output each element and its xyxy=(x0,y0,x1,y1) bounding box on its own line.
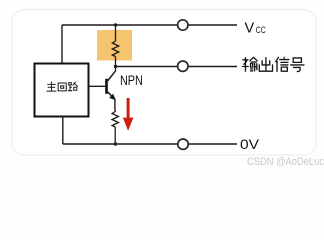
panel background card xyxy=(12,10,316,156)
wire: output signal line xyxy=(116,66,238,68)
resistor R2 (emitter resistor) xyxy=(112,110,118,144)
terminal Vcc xyxy=(178,20,188,30)
node: 0V rail junction xyxy=(114,142,117,145)
wire: 0V bottom rail xyxy=(63,143,237,145)
transistor Q1 NPN xyxy=(89,71,116,110)
emitter stroke xyxy=(108,92,115,100)
label Vcc xyxy=(245,21,266,37)
出 xyxy=(259,58,272,72)
node: junction of pull-up resistor on Vcc rail xyxy=(114,23,117,26)
label 主回路 (drawn glyph strokes) xyxy=(47,82,77,91)
svg-text:CC: CC xyxy=(256,25,266,36)
load resistor highlight (orange box) xyxy=(97,30,132,61)
base bar xyxy=(105,79,108,94)
信 xyxy=(276,57,289,71)
svg-text:NPN: NPN xyxy=(120,73,143,88)
current arrow (red) xyxy=(123,98,133,131)
resistor R1 (pull-up, inside orange box) xyxy=(112,25,118,72)
emitter arrowhead xyxy=(109,94,116,100)
terminal output xyxy=(178,61,188,71)
node: output junction xyxy=(114,65,117,68)
emitter vertical wire xyxy=(114,99,116,110)
wire: left vertical from top rail to main circuit box xyxy=(61,25,63,64)
label 输出信号 (drawn glyph strokes) xyxy=(243,57,304,71)
collector stroke xyxy=(108,71,116,81)
terminal 0V xyxy=(178,139,188,149)
输 xyxy=(243,57,258,71)
svg-text:CSDN @AoDeLuc: CSDN @AoDeLuc xyxy=(247,156,324,168)
main circuit box 主回路 xyxy=(35,64,89,117)
wire: Vcc top rail xyxy=(62,24,237,26)
wire: left vertical from box to 0V rail xyxy=(62,117,64,145)
号 xyxy=(291,58,304,72)
base wire from main circuit xyxy=(89,85,106,87)
svg-text:0V: 0V xyxy=(240,136,260,152)
svg-text:V: V xyxy=(245,21,255,37)
